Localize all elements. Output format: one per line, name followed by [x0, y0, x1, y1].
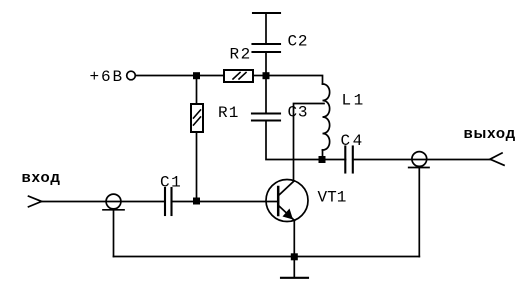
wire +6В terminal to node A — [136, 75, 194, 77]
C2 top bar — [253, 12, 280, 14]
wire R1 down to node E — [196, 132, 198, 198]
collector tap wire to L1 — [294, 104, 325, 182]
label C4 — [341, 132, 365, 150]
label вход — [22, 169, 61, 186]
output arrow — [490, 153, 504, 165]
svg-text:R2: R2 — [230, 46, 252, 64]
svg-text:вход: вход — [22, 169, 61, 186]
node B junction — [263, 72, 270, 79]
resistor R1 — [191, 104, 203, 132]
svg-text:+6В: +6В — [90, 68, 125, 86]
capacitor C4 — [345, 147, 353, 173]
inductor L1 — [323, 84, 330, 150]
svg-text:VT1: VT1 — [318, 189, 347, 207]
transistor VT1 — [266, 180, 308, 222]
input arrow — [29, 196, 42, 207]
VT1 collector diagonal — [279, 182, 294, 196]
wire node A down to R1 — [196, 79, 198, 104]
VT1 emitter diagonal — [279, 206, 295, 221]
label R2 — [230, 46, 252, 64]
wire C3 bottom to tank bottom rail — [266, 121, 318, 160]
wire output terminal down to ground rail — [418, 168, 420, 257]
wire input terminal down to ground rail — [113, 210, 115, 257]
svg-text:C4: C4 — [341, 132, 365, 150]
terminal output — [412, 152, 427, 167]
resistor R2 — [224, 70, 253, 82]
terminal input — [106, 194, 121, 209]
wire node E to VT1 base — [200, 201, 277, 203]
emitter wire down — [293, 221, 295, 254]
output terminal bar — [409, 167, 429, 169]
wire node B to L1 top — [270, 76, 323, 85]
wire node A to R2 — [200, 75, 224, 77]
svg-text:C3: C3 — [288, 104, 309, 122]
ground — [293, 260, 295, 277]
label R1 — [218, 104, 240, 122]
wire R2 to node B — [253, 75, 263, 77]
node D junction emitter/ground rail — [291, 253, 298, 260]
wire node C to C4 — [326, 159, 346, 161]
svg-text:R1: R1 — [218, 104, 240, 122]
svg-text:L1: L1 — [342, 92, 366, 110]
wire node B down to C3 — [265, 79, 267, 113]
label C3 — [288, 104, 309, 122]
capacitor C3 — [252, 114, 280, 121]
capacitor C1 — [165, 188, 172, 215]
ground rail (bottom wire) — [114, 256, 420, 258]
label VT1 — [318, 189, 347, 207]
label выход — [464, 125, 517, 142]
node E junction R1/base — [193, 198, 200, 205]
node A junction — [193, 72, 200, 79]
svg-text:выход: выход — [464, 125, 517, 142]
wire node B up to C2 — [265, 53, 267, 73]
VT1 base bar — [277, 187, 280, 215]
capacitor C2 — [253, 44, 281, 52]
terminal +6В — [127, 71, 136, 80]
svg-text:C1: C1 — [160, 174, 182, 192]
wire C4 to output arrow — [353, 159, 490, 161]
input terminal bar — [103, 209, 124, 211]
input wire to C1 — [42, 201, 166, 203]
label C2 — [288, 33, 309, 51]
node C junction L1/C4 — [319, 156, 326, 163]
label C1 — [160, 174, 182, 192]
label +6В — [90, 68, 125, 86]
label L1 — [342, 92, 366, 110]
wire C1 to node E — [172, 201, 194, 203]
svg-text:C2: C2 — [288, 33, 309, 51]
VT1 emitter arrowhead — [283, 209, 294, 220]
